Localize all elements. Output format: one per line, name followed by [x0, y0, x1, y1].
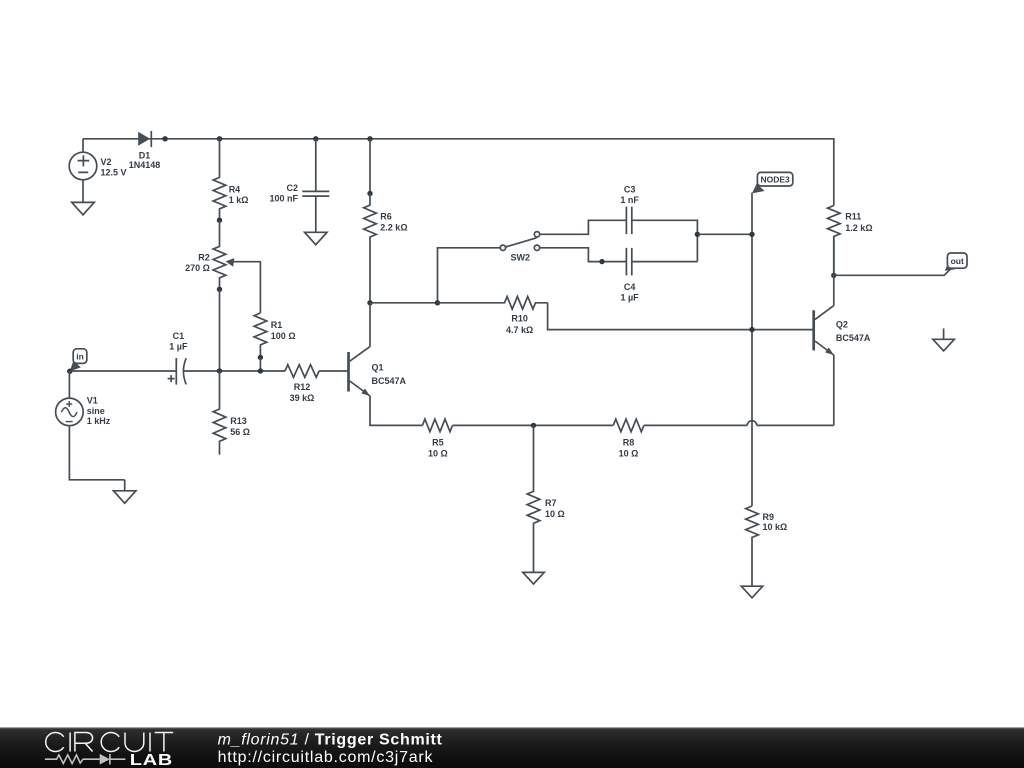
svg-text:http://circuitlab.com/c3j7ark: http://circuitlab.com/c3j7ark [218, 749, 434, 766]
svg-text:4.7 kΩ: 4.7 kΩ [506, 325, 533, 335]
resistor R1 100 [254, 313, 267, 357]
junction above R6 [367, 191, 372, 196]
voltage source V1 sine 1 kHz [56, 398, 84, 426]
junction R10 node [435, 300, 440, 305]
junction R11 / out [831, 273, 836, 278]
wire R10 to Q2 base [548, 303, 814, 330]
wire top rail [83, 139, 834, 206]
svg-text:1 kHz: 1 kHz [87, 416, 111, 426]
wire out node [834, 268, 952, 275]
svg-text:SW2: SW2 [511, 253, 531, 263]
svg-text:C1: C1 [173, 331, 185, 341]
wire R6 node to R10 node [370, 302, 438, 304]
svg-text:V1: V1 [87, 396, 98, 406]
svg-text:R6: R6 [380, 211, 392, 221]
junction NODE3 / Q2 base [749, 327, 754, 332]
capacitor C4 1 uF [626, 248, 631, 276]
resistor R4 1 k [213, 139, 226, 220]
flag in [70, 361, 81, 372]
svg-text:100 nF: 100 nF [269, 193, 298, 203]
junction R4/R2 [217, 218, 222, 223]
svg-text:1.2 kΩ: 1.2 kΩ [845, 223, 872, 233]
flag out [945, 263, 956, 271]
svg-text:1 µF: 1 µF [620, 293, 639, 303]
junction after D1 [162, 136, 167, 141]
junction R6 / R10 node [367, 300, 372, 305]
junction C4 branch [599, 259, 604, 264]
resistor R10 4.7 k [438, 297, 548, 310]
svg-text:NODE3: NODE3 [760, 175, 790, 185]
wire C3 right [632, 220, 698, 261]
wire hop to Q2 emitter [757, 424, 834, 426]
wire Q2 collector [833, 237, 835, 306]
svg-text:12.5 V: 12.5 V [101, 168, 127, 178]
resistor R6 2.2 k [364, 194, 377, 303]
voltage source V2 12.5 V [82, 139, 84, 152]
svg-text:V2: V2 [101, 157, 112, 167]
svg-text:2.2 kΩ: 2.2 kΩ [380, 223, 407, 233]
wire R2 to input node [219, 289, 221, 371]
junction in node [67, 369, 72, 374]
svg-text:270 Ω: 270 Ω [185, 263, 210, 273]
potentiometer R2 270 [213, 220, 226, 289]
svg-text:10 Ω: 10 Ω [619, 449, 639, 459]
svg-text:C2: C2 [286, 183, 298, 193]
svg-text:R8: R8 [623, 437, 635, 447]
svg-text:1 µF: 1 µF [169, 341, 188, 351]
logo resistor-diode line [45, 754, 126, 765]
svg-text:10 kΩ: 10 kΩ [763, 522, 788, 532]
resistor R11 1.2 k [828, 206, 841, 276]
flag NODE3 [752, 184, 765, 194]
wire V1 to in node [68, 371, 70, 398]
wire Q1 collector [369, 303, 371, 347]
svg-text:10 Ω: 10 Ω [428, 449, 448, 459]
wire C1 to R12 [183, 370, 285, 372]
wire hop over NODE3 column [747, 421, 756, 426]
junction C3C4 right [695, 232, 700, 237]
svg-text:in: in [76, 352, 84, 362]
logo CIRCUIT [46, 733, 173, 752]
wire R12 to Q1 base [319, 370, 349, 372]
svg-text:R12: R12 [294, 382, 311, 392]
svg-text:R9: R9 [763, 512, 775, 522]
wire R1 to main wire [259, 357, 261, 371]
svg-text:sine: sine [87, 406, 105, 416]
svg-text:C3: C3 [624, 185, 636, 195]
wire R8 to hop [644, 424, 747, 426]
wire to NODE3 column [697, 233, 752, 235]
svg-text:R13: R13 [230, 416, 247, 426]
wire R5 to R8 [453, 424, 614, 426]
wire Q1 emitter [370, 396, 422, 425]
ground below R7 [533, 571, 535, 573]
junction R1 bottom [258, 355, 263, 360]
wire R6 top [369, 139, 371, 194]
junction bottom rail / R7 [531, 423, 536, 428]
footer bar [0, 727, 1024, 768]
resistor R9 10 k [746, 506, 759, 586]
resistor R7 10 [527, 425, 540, 572]
svg-text:BC547A: BC547A [372, 376, 407, 386]
resistor R5 10 [422, 419, 452, 432]
junction NODE3 / C3C4 [749, 232, 754, 237]
svg-text:Q2: Q2 [836, 320, 848, 330]
svg-text:10 Ω: 10 Ω [545, 509, 565, 519]
svg-text:R4: R4 [229, 184, 241, 194]
svg-text:56 Ω: 56 Ω [230, 427, 250, 437]
junction top rail / R4 [217, 136, 222, 141]
svg-text:R11: R11 [845, 212, 861, 222]
wire NODE3 column [751, 193, 753, 506]
svg-text:Q1: Q1 [372, 363, 384, 373]
wire R10 node to SW2 pole [438, 248, 501, 303]
wire Q2 emitter [833, 355, 835, 425]
svg-text:1N4148: 1N4148 [129, 160, 161, 170]
switch SW2 [505, 238, 536, 247]
wire SW2 throw1 to C3 [540, 220, 627, 234]
junction main/R1 [258, 368, 263, 373]
capacitor C2 100 nF [315, 139, 317, 192]
svg-text:R2: R2 [198, 252, 210, 262]
junction below R2 [217, 287, 222, 292]
svg-text:R5: R5 [432, 437, 444, 447]
wire in to C1 [70, 370, 177, 372]
wire R2 wiper to R1 [259, 261, 261, 313]
transistor Q1 BC547A [347, 352, 350, 392]
svg-text:100 Ω: 100 Ω [271, 331, 296, 341]
ground below V1 [124, 480, 126, 491]
resistor R13 56 [213, 371, 226, 455]
capacitor C3 1 nF [626, 207, 631, 235]
junction top rail / R6 [367, 136, 372, 141]
svg-text:C4: C4 [624, 282, 636, 292]
svg-text:R1: R1 [271, 320, 283, 330]
svg-text:BC547A: BC547A [836, 333, 871, 343]
wire V1 to ground [69, 426, 124, 480]
transistor Q2 BC547A [812, 310, 815, 350]
wire SW2 throw2 to C4 [540, 248, 627, 262]
ground floating right [943, 328, 945, 339]
resistor R8 10 [613, 419, 644, 432]
ground below C2 [315, 231, 317, 233]
svg-text:m_florin51 / Trigger Schmitt: m_florin51 / Trigger Schmitt [218, 731, 443, 748]
ground below R9 [751, 585, 753, 587]
svg-text:out: out [951, 256, 964, 266]
svg-text:R7: R7 [545, 498, 557, 508]
svg-text:D1: D1 [139, 150, 151, 160]
svg-text:39 kΩ: 39 kΩ [290, 393, 315, 403]
svg-text:R10: R10 [511, 314, 528, 324]
junction main/R13 [217, 368, 222, 373]
wire C4 right [632, 261, 698, 263]
diode D1 1N4148 [138, 132, 150, 146]
ground below V2 [82, 180, 84, 203]
svg-text:1 kΩ: 1 kΩ [229, 195, 249, 205]
svg-text:LAB: LAB [130, 752, 173, 768]
svg-text:1 nF: 1 nF [620, 195, 639, 205]
junction top rail / C2 [313, 136, 318, 141]
resistor R12 39 k [285, 365, 319, 378]
capacitor C1 1 uF polarized [175, 358, 177, 385]
